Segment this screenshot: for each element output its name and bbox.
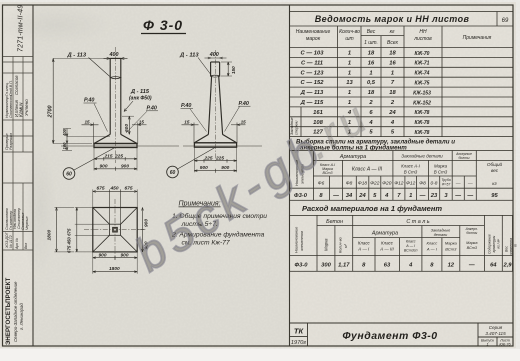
svg-text:Соответств: Соответств bbox=[9, 95, 13, 118]
svg-text:34: 34 bbox=[346, 193, 353, 199]
svg-text:1: 1 bbox=[391, 70, 394, 76]
svg-text:—: — bbox=[468, 263, 475, 269]
svg-text:16: 16 bbox=[368, 60, 375, 66]
svg-text:Марка: Марка bbox=[445, 241, 458, 246]
table 3 headers bbox=[326, 219, 478, 253]
table 2 headers bbox=[320, 152, 503, 186]
plan view bbox=[47, 185, 150, 273]
svg-text:НН: НН bbox=[419, 29, 427, 35]
svg-text:400: 400 bbox=[109, 52, 119, 58]
svg-text:600: 600 bbox=[124, 124, 130, 132]
svg-text:24: 24 bbox=[388, 110, 396, 116]
centerline bbox=[115, 47, 117, 163]
svg-text:С — 123: С — 123 bbox=[301, 70, 325, 76]
svg-text:7271-тм-II-49: 7271-тм-II-49 bbox=[18, 5, 25, 52]
stamp signatures (rotated tiny text) bbox=[5, 75, 29, 250]
svg-text:1 шт.: 1 шт. bbox=[364, 40, 378, 46]
svg-text:675: 675 bbox=[125, 185, 133, 191]
svg-text:Вкл: Вкл bbox=[24, 243, 28, 249]
svg-text:24: 24 bbox=[358, 193, 366, 199]
elevation view 2 bbox=[167, 50, 262, 178]
svg-text:95: 95 bbox=[491, 193, 498, 199]
svg-text:1: 1 bbox=[348, 70, 351, 76]
svg-text:Наименование: Наименование bbox=[295, 227, 299, 253]
svg-text:23: 23 bbox=[430, 193, 438, 199]
svg-text:12: 12 bbox=[448, 263, 455, 269]
svg-text:болты: болты bbox=[459, 156, 470, 160]
svg-text:225: 225 bbox=[114, 154, 123, 160]
svg-text:А — I: А — I bbox=[357, 247, 370, 252]
svg-text:Разрешил: Разрешил bbox=[9, 133, 13, 150]
dim 150 right of cap bbox=[221, 62, 232, 76]
svg-text:Д — 113: Д — 113 bbox=[300, 90, 324, 96]
right dim 900 900 bbox=[137, 208, 144, 252]
svg-text:Ф3-0: Ф3-0 bbox=[295, 263, 309, 269]
dims 215 225 under slab bbox=[94, 148, 137, 171]
svg-text:15: 15 bbox=[85, 120, 91, 125]
svg-text:КЖ-153: КЖ-153 bbox=[413, 90, 431, 96]
left outer dim 1800 bbox=[55, 208, 75, 252]
table 1 headers bbox=[296, 29, 492, 46]
svg-text:листов: листов bbox=[413, 36, 432, 42]
ground line bbox=[61, 145, 179, 147]
svg-text:С — 152: С — 152 bbox=[301, 80, 325, 86]
svg-text:Ф12: Ф12 bbox=[406, 181, 415, 187]
svg-text:ВСт3: ВСт3 bbox=[445, 247, 457, 252]
svg-text:13: 13 bbox=[346, 80, 353, 86]
svg-text:ЭНЕРГОСЕТЬПРОЕКТ: ЭНЕРГОСЕТЬПРОЕКТ bbox=[5, 277, 12, 345]
svg-text:18: 18 bbox=[368, 90, 375, 96]
svg-text:Ф6: Ф6 bbox=[318, 181, 325, 187]
svg-text:—: — bbox=[467, 182, 473, 187]
svg-text:Ф12: Ф12 bbox=[394, 181, 403, 187]
svg-text:1,17: 1,17 bbox=[338, 263, 350, 269]
svg-text:900: 900 bbox=[99, 252, 107, 258]
dims 900 900 bbox=[94, 167, 137, 171]
svg-text:60: 60 bbox=[66, 172, 72, 178]
svg-text:63: 63 bbox=[384, 263, 391, 269]
dims 225 225 under slab bbox=[194, 147, 236, 172]
svg-text:Ф3-0: Ф3-0 bbox=[294, 193, 308, 199]
svg-text:Чертил: Чертил bbox=[25, 217, 29, 230]
svg-text:марок: марок bbox=[306, 36, 321, 42]
table 3: Расход материалов bbox=[290, 204, 518, 271]
svg-text:150: 150 bbox=[231, 66, 236, 74]
svg-text:400: 400 bbox=[209, 52, 219, 58]
centerlines bbox=[84, 229, 147, 231]
diagonals bbox=[93, 208, 137, 252]
flare bbox=[94, 134, 110, 143]
stamp grid lines bbox=[3, 57, 34, 251]
svg-text:детали: детали bbox=[434, 233, 448, 237]
main title Ф 3-0 bbox=[141, 17, 186, 34]
svg-text:Наименование: Наименование bbox=[296, 29, 331, 35]
column body bbox=[94, 58, 137, 147]
title block bbox=[290, 323, 514, 347]
bottom dim 1800 bbox=[93, 271, 137, 273]
svg-text:Марка: Марка bbox=[324, 238, 329, 251]
svg-text:КЖ-78: КЖ-78 bbox=[415, 110, 430, 116]
svg-text:450: 450 bbox=[110, 185, 119, 191]
svg-text:С — 103: С — 103 bbox=[301, 51, 325, 57]
svg-text:0-8: 0-8 bbox=[431, 181, 438, 187]
svg-text:кг: кг bbox=[390, 29, 395, 35]
svg-text:Р.40: Р.40 bbox=[84, 98, 94, 104]
svg-text:18: 18 bbox=[389, 51, 396, 57]
svg-text:675: 675 bbox=[97, 185, 105, 191]
svg-text:Северо-Западное отделение: Северо-Западное отделение bbox=[13, 281, 18, 342]
svg-text:1: 1 bbox=[348, 51, 351, 57]
svg-text:КЖ-75: КЖ-75 bbox=[415, 81, 430, 87]
svg-text:Ф8: Ф8 bbox=[419, 181, 426, 187]
svg-text:Класс А-I: Класс А-I bbox=[401, 164, 421, 169]
svg-text:(анк Ф50): (анк Ф50) bbox=[129, 96, 152, 102]
svg-text:Р.40: Р.40 bbox=[181, 103, 191, 109]
svg-text:1: 1 bbox=[369, 70, 372, 76]
svg-text:КЖ-76: КЖ-76 bbox=[499, 343, 511, 347]
svg-text:Арматура: Арматура bbox=[371, 231, 398, 237]
svg-text:ТК: ТК bbox=[294, 327, 305, 336]
bottom dim 900 900 bbox=[93, 252, 137, 274]
svg-text:Расход материалов на 1 фу: Расход материалов на 1 фундамент bbox=[302, 204, 442, 213]
svg-text:Закладные детали: Закладные детали bbox=[401, 154, 443, 159]
svg-text:18: 18 bbox=[389, 90, 396, 96]
svg-text:Примечания: Примечания bbox=[463, 35, 492, 41]
dims 400 / 100 left of base bbox=[62, 129, 110, 151]
svg-text:Марка: Марка bbox=[466, 241, 477, 245]
svg-text:1: 1 bbox=[409, 193, 412, 199]
inner square (column section) bbox=[110, 224, 121, 235]
svg-text:Закладные: Закладные bbox=[431, 229, 451, 233]
outer square bbox=[93, 208, 137, 252]
svg-text:ВСт3сп: ВСт3сп bbox=[404, 249, 418, 253]
svg-text:Согласов: Согласов bbox=[14, 75, 19, 95]
dim 2700 bbox=[52, 58, 108, 143]
svg-text:т: т bbox=[514, 244, 518, 247]
svg-text:Класс: Класс bbox=[358, 241, 371, 246]
svg-text:16: 16 bbox=[389, 60, 396, 66]
svg-text:400: 400 bbox=[62, 128, 67, 137]
svg-text:15: 15 bbox=[184, 120, 190, 125]
svg-text:кг: кг bbox=[492, 181, 497, 186]
svg-text:Серия: Серия bbox=[489, 325, 503, 330]
svg-text:15: 15 bbox=[241, 120, 247, 125]
dim 400 top bbox=[104, 57, 128, 59]
svg-text:Д - 113: Д - 113 bbox=[67, 53, 87, 59]
svg-text:Бетон: Бетон bbox=[326, 219, 343, 225]
svg-text:КЖ-70: КЖ-70 bbox=[415, 51, 430, 57]
joint ellipse bbox=[110, 77, 121, 79]
elevation view 1 bbox=[48, 47, 180, 179]
table 1 data rows bbox=[300, 51, 431, 137]
svg-text:Д - 115: Д - 115 bbox=[130, 89, 150, 95]
svg-text:18: 18 bbox=[368, 51, 375, 57]
svg-text:1970г: 1970г bbox=[291, 340, 306, 346]
table 2: Выборка стали bbox=[290, 139, 514, 201]
ground line bbox=[183, 145, 262, 147]
svg-text:900: 900 bbox=[121, 163, 129, 169]
svg-text:15: 15 bbox=[139, 120, 145, 125]
svg-text:Ведомость марок и НН листов: Ведомость марок и НН листов bbox=[315, 14, 470, 24]
svg-text:Класс: Класс bbox=[426, 241, 437, 246]
diameters row bbox=[318, 178, 473, 187]
svg-text:вес: вес bbox=[491, 168, 499, 173]
svg-text:элементов: элементов bbox=[300, 231, 304, 251]
svg-text:Труба: Труба bbox=[441, 178, 450, 182]
svg-text:С т а л ь: С т а л ь bbox=[406, 219, 429, 225]
svg-text:кг / м³: кг / м³ bbox=[497, 238, 501, 248]
slab bbox=[94, 143, 137, 145]
svg-text:Фундамент Ф3-0: Фундамент Ф3-0 bbox=[342, 330, 437, 342]
svg-text:Всех: Всех bbox=[387, 40, 398, 46]
svg-text:КЖ-78: КЖ-78 bbox=[415, 120, 430, 126]
svg-text:60: 60 bbox=[170, 170, 176, 176]
svg-text:Арх №: Арх № bbox=[15, 238, 19, 250]
dim 400 top bbox=[205, 57, 227, 59]
svg-text:Ф22: Ф22 bbox=[370, 181, 379, 187]
svg-text:0,5: 0,5 bbox=[367, 80, 376, 86]
svg-text:3.407-115: 3.407-115 bbox=[485, 331, 506, 336]
svg-text:Общий: Общий bbox=[487, 161, 503, 167]
svg-text:элемента: элемента bbox=[509, 238, 513, 255]
svg-text:Ф18: Ф18 bbox=[358, 181, 367, 187]
table 2 data row bbox=[294, 193, 498, 199]
svg-text:шт: шт bbox=[345, 36, 353, 42]
table 3 data row bbox=[295, 263, 513, 269]
position mark circle 60 bbox=[63, 168, 75, 180]
svg-text:КЖ-78: КЖ-78 bbox=[415, 130, 430, 136]
svg-text:2,9: 2,9 bbox=[502, 263, 512, 269]
svg-text:215: 215 bbox=[104, 154, 113, 160]
svg-text:Ф20: Ф20 bbox=[382, 181, 391, 187]
svg-text:КЖ-71: КЖ-71 bbox=[415, 61, 430, 67]
top dim 675 450 675 bbox=[93, 189, 137, 224]
svg-text:1: 1 bbox=[486, 343, 488, 347]
svg-text:арматуры: арматуры bbox=[492, 235, 496, 252]
svg-text:Вес: Вес bbox=[505, 246, 509, 252]
svg-text:Марка: Марка bbox=[434, 164, 448, 169]
svg-text:Класс: Класс bbox=[381, 241, 394, 246]
flare bbox=[194, 134, 208, 142]
svg-text:225: 225 bbox=[215, 155, 224, 161]
scan smudges bbox=[0, 5, 115, 45]
svg-text:№ 1172: № 1172 bbox=[9, 235, 13, 248]
table 1: Ведомость марок и НН листов bbox=[290, 12, 514, 137]
svg-text:Колич-во: Колич-во bbox=[339, 237, 343, 253]
svg-text:900: 900 bbox=[121, 252, 129, 258]
svg-text:900: 900 bbox=[100, 163, 108, 169]
svg-text:Ф 3-0: Ф 3-0 bbox=[143, 17, 183, 33]
svg-text:Р.40: Р.40 bbox=[239, 101, 249, 107]
svg-text:А — I: А — I bbox=[426, 247, 438, 252]
notes bbox=[171, 201, 267, 247]
svg-text:Ф=57: Ф=57 bbox=[442, 183, 451, 187]
svg-text:69: 69 bbox=[502, 18, 509, 24]
svg-text:г. Ленинград: г. Ленинград bbox=[19, 303, 24, 330]
svg-text:—: — bbox=[455, 182, 461, 187]
svg-text:1800: 1800 bbox=[47, 229, 53, 240]
anchor square bbox=[113, 227, 118, 232]
svg-text:В Ст3: В Ст3 bbox=[404, 170, 418, 175]
svg-text:Отд.В.П.: Отд.В.П. bbox=[9, 80, 13, 96]
svg-text:С — 111: С — 111 bbox=[301, 60, 323, 66]
svg-text:1: 1 bbox=[348, 60, 351, 66]
watermark bbox=[126, 91, 379, 282]
svg-text:—: — bbox=[419, 193, 426, 199]
svg-text:КЖ-74: КЖ-74 bbox=[415, 71, 430, 77]
svg-text:300: 300 bbox=[321, 263, 331, 269]
svg-text:Учтено: Учтено bbox=[24, 99, 29, 116]
left margin stamp column bbox=[3, 5, 34, 345]
svg-text:Д — 115: Д — 115 bbox=[300, 100, 324, 106]
position mark circle 60 bbox=[167, 166, 179, 178]
left inner dim 675 450 675 bbox=[75, 208, 110, 252]
svg-text:Содержание: Содержание bbox=[488, 234, 492, 254]
centerline bbox=[215, 50, 217, 163]
svg-text:Ф8: Ф8 bbox=[346, 181, 353, 187]
svg-text:675 450 675: 675 450 675 bbox=[67, 228, 72, 253]
svg-text:100: 100 bbox=[62, 142, 67, 150]
svg-text:900: 900 bbox=[200, 165, 208, 171]
dim 600 right of column bbox=[122, 116, 134, 134]
tapered column bbox=[194, 62, 236, 147]
svg-text:ВСт3: ВСт3 bbox=[467, 246, 478, 250]
svg-text:В Ст3: В Ст3 bbox=[434, 170, 448, 175]
svg-text:—: — bbox=[466, 193, 473, 199]
svg-text:225: 225 bbox=[204, 155, 213, 161]
dims 900 900 bbox=[194, 169, 236, 173]
svg-text:64: 64 bbox=[490, 263, 497, 269]
svg-text:А — III: А — III bbox=[379, 247, 394, 252]
svg-text:2700: 2700 bbox=[48, 106, 54, 119]
svg-text:Вес: Вес bbox=[367, 29, 376, 35]
svg-text:А — I: А — I bbox=[405, 244, 415, 248]
svg-text:—: — bbox=[454, 193, 461, 199]
svg-text:1800: 1800 bbox=[109, 266, 120, 272]
svg-text:Класс: Класс bbox=[406, 240, 416, 244]
svg-text:Класс А — III: Класс А — III bbox=[352, 167, 383, 173]
svg-text:болты: болты bbox=[466, 231, 477, 235]
svg-text:Колич-во: Колич-во bbox=[339, 29, 360, 35]
svg-text:КЖ-152: КЖ-152 bbox=[413, 100, 431, 106]
svg-text:Д - 113: Д - 113 bbox=[179, 53, 199, 59]
svg-text:—: — bbox=[332, 193, 339, 199]
